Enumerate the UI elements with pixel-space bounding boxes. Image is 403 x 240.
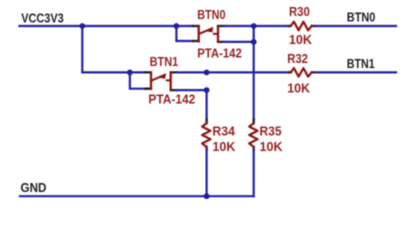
resistor R34 [202, 119, 210, 150]
svg-text:BTN1: BTN1 [150, 54, 179, 69]
resistor R30 [289, 22, 315, 31]
svg-text:VCC3V3: VCC3V3 [21, 11, 64, 26]
wire R34 to GND [206, 150, 208, 196]
svg-text:PTA-142: PTA-142 [197, 46, 242, 61]
wire R32 to BTN1 net [315, 71, 396, 73]
wire BTN0 node down to R35 [253, 26, 255, 119]
wire R30 to BTN0 net [315, 25, 396, 27]
wire GND rail [20, 195, 254, 197]
svg-text:BTN1: BTN1 [347, 56, 375, 71]
push button BTN1 (PTA-142) [145, 72, 176, 90]
wire BTN1 output to R32 [207, 71, 289, 73]
svg-text:10K: 10K [212, 139, 235, 154]
wire BTN1 node down to R34 [206, 90, 208, 119]
node GND junction R34 [204, 193, 210, 199]
node BTN1 output bottom [204, 87, 210, 93]
wire BTN0 left loop [176, 26, 193, 41]
node BTN0 left loop junction [174, 23, 180, 29]
wire VCC3V3 top rail [19, 25, 193, 27]
svg-text:GND: GND [21, 180, 47, 195]
wire BTN1 row left [130, 71, 145, 73]
node VCC junction [79, 23, 85, 29]
svg-text:PTA-142: PTA-142 [148, 92, 195, 107]
node BTN1 left loop junction [127, 70, 133, 76]
node BTN0 output top [251, 23, 257, 29]
svg-text:R30: R30 [289, 4, 310, 19]
svg-text:R34: R34 [212, 123, 235, 138]
svg-text:10K: 10K [289, 32, 313, 47]
wire BTN1 left loop [130, 72, 145, 88]
wire BTN0 output to R30 [254, 25, 289, 27]
svg-text:R35: R35 [260, 123, 282, 138]
wire BTN1 right loop [176, 72, 206, 90]
node BTN1 output top [204, 70, 210, 76]
svg-text:BTN0: BTN0 [347, 10, 376, 25]
svg-text:10K: 10K [287, 80, 310, 95]
wire VCC drop to BTN1 row [82, 26, 130, 72]
push button BTN0 (PTA-142) [193, 26, 224, 42]
svg-text:10K: 10K [260, 139, 283, 154]
resistor R35 [249, 119, 257, 150]
node BTN0 output bottom [251, 39, 257, 45]
svg-text:BTN0: BTN0 [197, 7, 225, 22]
svg-text:R32: R32 [287, 51, 308, 66]
resistor R32 [289, 68, 315, 77]
wire BTN0 right loop [224, 26, 254, 42]
wire R35 to GND corner [253, 150, 255, 196]
